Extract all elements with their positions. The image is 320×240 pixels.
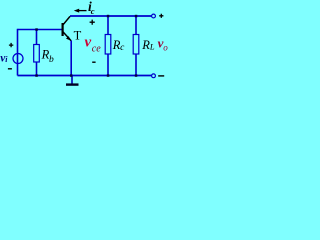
svg-text:L: L bbox=[149, 42, 155, 52]
node dot Rc top bbox=[107, 15, 110, 17]
plus output bbox=[159, 14, 163, 18]
node dot emitter bbox=[70, 74, 73, 77]
svg-text:o: o bbox=[163, 43, 168, 53]
wire Rc vertical bbox=[107, 16, 109, 76]
wire left vertical vi branch bbox=[17, 29, 19, 76]
resistor Rc bbox=[105, 35, 111, 55]
resistor Rb bbox=[34, 45, 40, 63]
minus output bbox=[158, 75, 164, 77]
source vi bbox=[13, 54, 23, 64]
resistor RL bbox=[133, 35, 139, 55]
plus vi bbox=[9, 43, 13, 47]
plus vce bbox=[90, 20, 95, 25]
svg-text:v: v bbox=[85, 35, 92, 51]
svg-text:c: c bbox=[91, 6, 95, 16]
terminal bottom right bbox=[152, 74, 156, 78]
svg-text:ce: ce bbox=[92, 43, 101, 54]
transistor T bbox=[63, 16, 72, 41]
arrow ic bbox=[74, 9, 87, 13]
svg-text:b: b bbox=[49, 55, 54, 65]
wire top rail bbox=[70, 15, 152, 17]
background bbox=[0, 0, 172, 96]
node dot Rb top bbox=[35, 28, 38, 31]
node dot RL top bbox=[135, 15, 138, 17]
minus vce bbox=[92, 61, 95, 63]
node dot Rc bottom bbox=[107, 74, 110, 77]
wire base horizontal bbox=[18, 29, 63, 31]
wire bottom rail bbox=[18, 75, 152, 77]
wire emitter vertical bbox=[70, 41, 72, 76]
minus vi bbox=[8, 68, 12, 70]
node dot Rb bottom bbox=[35, 74, 38, 77]
svg-text:T: T bbox=[74, 29, 82, 43]
wire RL vertical bbox=[135, 16, 137, 76]
terminal top right bbox=[152, 14, 156, 18]
node dot RL bottom bbox=[135, 74, 138, 77]
ground bbox=[66, 76, 79, 85]
wire Rb vertical bbox=[36, 30, 38, 76]
